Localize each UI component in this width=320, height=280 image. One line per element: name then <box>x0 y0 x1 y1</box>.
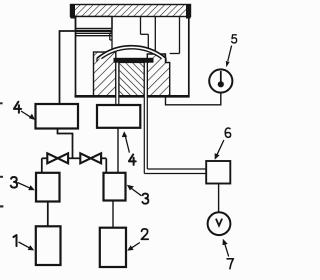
press crosshead bar (hatched) <box>71 5 191 17</box>
wire: riser pipe from press to box 4 left <box>60 31 76 104</box>
box 3 right <box>104 173 126 201</box>
label 3 (left) <box>11 177 35 190</box>
right frame inner wall <box>170 17 180 54</box>
meter 7 (voltmeter) <box>208 212 231 235</box>
upper die inner wall right <box>154 17 156 52</box>
wire: valve manifold line <box>42 157 107 159</box>
dome membrane (double arc) <box>97 46 166 59</box>
press outer left wall <box>75 17 77 98</box>
box 4 (left reservoir) <box>36 104 79 129</box>
label 7 <box>223 239 234 269</box>
bar left end cap <box>71 5 76 19</box>
wire: jog from box 4 to valve tee <box>58 129 73 159</box>
lower die block right (hatched, stepped) <box>147 54 169 96</box>
upper left plate <box>76 17 113 29</box>
arc end ticks <box>96 58 98 61</box>
central punch column (hatched) <box>119 63 144 96</box>
wire: box 4 middle to box 3 right <box>117 128 119 173</box>
press base edge (thick) <box>75 95 190 98</box>
label 3 (right) <box>127 185 149 204</box>
plate stack lines <box>76 31 113 36</box>
wire: double pipe to box 6 <box>144 169 206 174</box>
piston rod channel left <box>116 63 119 105</box>
label 1 <box>13 235 34 250</box>
upper punch step <box>141 17 149 49</box>
box 4 middle <box>97 105 140 128</box>
bar right end cap <box>186 5 191 19</box>
label 4 (left) <box>14 102 35 120</box>
label 6 <box>215 128 231 160</box>
wire: drop to box 3 right <box>105 158 107 173</box>
box 1 <box>36 226 61 265</box>
label 5 <box>226 35 237 67</box>
press outer right wall <box>188 17 190 98</box>
box 2 <box>100 228 126 267</box>
wire: press to gauge 5 <box>166 93 221 105</box>
wire: box 6 to meter 7 <box>218 184 220 213</box>
wire: drop to box 3 left <box>41 158 43 173</box>
label 4 (middle) <box>122 131 136 165</box>
valve V2 <box>80 153 101 163</box>
piston rod channel right (pipe to box 6) <box>144 63 147 174</box>
upper die inner wall left <box>110 17 112 49</box>
box 6 <box>206 161 230 184</box>
wire: box 3 right to box 2 <box>112 201 114 228</box>
wire: box 3 left to box 1 <box>47 202 49 227</box>
lower die block left (hatched) <box>94 52 116 96</box>
scan dash artifacts at left margin <box>0 102 3 104</box>
gauge 5 (thermometer dial) <box>209 69 232 92</box>
valve V1 <box>47 153 68 163</box>
label 2 <box>127 229 148 251</box>
box 3 left <box>36 173 60 202</box>
punch head bar <box>114 58 154 63</box>
